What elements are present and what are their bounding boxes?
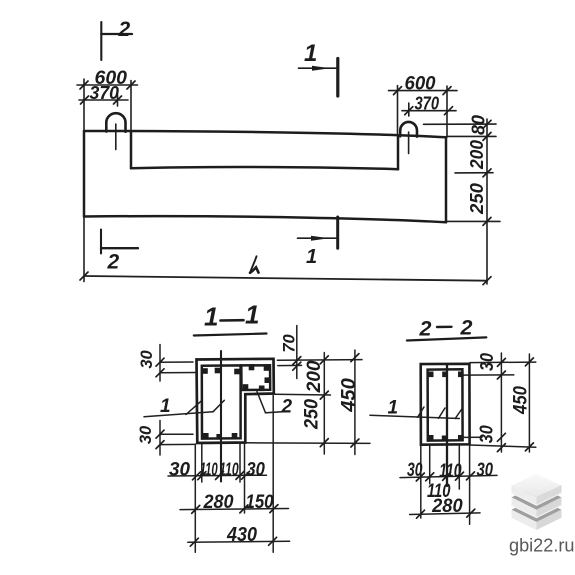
svg-text:450: 450 [338, 378, 360, 413]
svg-text:1: 1 [304, 40, 317, 67]
svg-text:110: 110 [219, 459, 239, 480]
svg-text:200: 200 [304, 360, 325, 393]
svg-text:30: 30 [476, 460, 493, 481]
svg-text:150: 150 [246, 492, 274, 513]
svg-text:200: 200 [467, 140, 487, 170]
svg-text:250: 250 [302, 399, 323, 430]
svg-text:1: 1 [306, 246, 317, 268]
svg-text:2: 2 [107, 251, 120, 274]
svg-text:600: 600 [405, 74, 436, 95]
svg-text:1: 1 [245, 300, 259, 330]
svg-text:30: 30 [407, 460, 423, 481]
svg-text:1: 1 [204, 302, 218, 332]
svg-text:2: 2 [118, 18, 131, 41]
svg-text:30: 30 [477, 425, 497, 443]
svg-text:70: 70 [280, 334, 298, 353]
svg-text:2: 2 [281, 397, 293, 418]
svg-text:370: 370 [415, 93, 440, 114]
svg-text:110: 110 [439, 461, 462, 482]
svg-text:370: 370 [90, 82, 120, 103]
svg-text:80: 80 [468, 114, 489, 135]
svg-text:30: 30 [137, 425, 155, 444]
svg-text:30: 30 [477, 353, 497, 371]
svg-text:1: 1 [160, 396, 171, 417]
svg-text:30: 30 [246, 460, 265, 481]
svg-text:2: 2 [419, 317, 432, 341]
svg-text:430: 430 [226, 523, 257, 546]
svg-text:280: 280 [203, 491, 234, 513]
svg-text:gbi22.ru: gbi22.ru [509, 534, 575, 555]
svg-text:250: 250 [467, 183, 487, 215]
svg-text:1: 1 [388, 398, 399, 419]
svg-text:280: 280 [431, 496, 463, 517]
svg-text:110: 110 [200, 459, 218, 480]
svg-text:30: 30 [138, 350, 156, 369]
svg-text:30: 30 [169, 460, 190, 481]
svg-text:2: 2 [460, 316, 473, 340]
svg-text:450: 450 [510, 386, 531, 415]
